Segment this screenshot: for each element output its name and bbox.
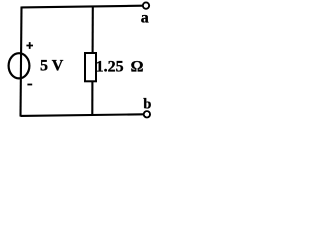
voltage source circle	[9, 53, 30, 78]
terminal b circle	[144, 111, 150, 117]
wire resistor branch bottom	[91, 82, 93, 115]
wire top (left corner to terminal a)	[21, 6, 142, 8]
svg-text:b: b	[143, 96, 151, 112]
plus sign	[26, 42, 33, 49]
minus sign	[27, 84, 32, 86]
svg-text:a: a	[141, 10, 149, 27]
wire bottom (left corner to terminal b)	[21, 114, 144, 116]
terminal a circle	[143, 2, 149, 8]
wire resistor branch top	[92, 7, 94, 54]
svg-text:1.25: 1.25	[96, 59, 124, 76]
svg-text:5 V: 5 V	[40, 58, 64, 75]
resistor box	[85, 53, 96, 81]
svg-text:Ω: Ω	[131, 59, 144, 76]
wire left (through voltage source)	[21, 7, 22, 117]
